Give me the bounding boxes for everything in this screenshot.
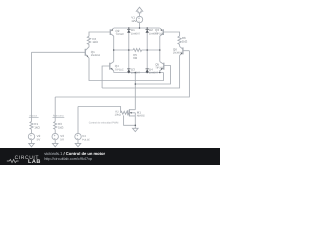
junction dots — [113, 27, 161, 126]
transistor Q5 bottom-right npn mirrored — [163, 63, 165, 70]
svg-text:http://circuitlab.com/c9k47xp: http://circuitlab.com/c9k47xp — [44, 157, 92, 161]
transistor Q4 bottom-left npn — [109, 63, 111, 70]
arrow Q1 emitter — [86, 55, 88, 57]
resistor R6 — [178, 36, 181, 44]
ground gnd4 — [133, 128, 139, 131]
wire R1 to V2 — [31, 130, 33, 134]
wire Q6 emitter drop H3 — [102, 55, 180, 88]
arrow Q2 emitter pnp — [111, 29, 113, 31]
svg-text:NMOS: NMOS — [137, 114, 145, 117]
wire bridge left vertical — [113, 36, 115, 62]
diode D1 wire — [128, 28, 130, 50]
footer bar — [0, 148, 220, 165]
arrow Q5 emitter — [161, 68, 163, 70]
svg-text:TIP31C: TIP31C — [115, 68, 124, 71]
wire mid rail right — [142, 49, 160, 51]
resistor R5 motor — [133, 49, 142, 52]
wire V1 to rail — [139, 23, 141, 28]
ground gnd3 — [75, 143, 81, 146]
wire Q6 base drop H4 — [55, 51, 189, 97]
transistor Q6 right driver npn mirrored — [182, 47, 184, 54]
svg-text:12V: 12V — [131, 19, 136, 23]
svg-text:victorxls.1 / Control de un mo: victorxls.1 / Control de un motor — [44, 151, 105, 156]
wire V3 to gnd — [54, 140, 56, 144]
svg-text:TIP31C: TIP31C — [155, 67, 164, 70]
svg-text:1kΩ: 1kΩ — [92, 40, 98, 44]
wire R6 to Q6 collector — [179, 44, 181, 46]
logo wave — [7, 159, 19, 162]
diode D2 wire — [146, 28, 148, 50]
wire Q3 base to R6 — [163, 32, 179, 36]
mosfet M1 channel bar — [128, 109, 130, 116]
resistor R4 — [87, 36, 90, 44]
wire branch2 vertical — [54, 97, 56, 122]
wire bottom rail — [114, 72, 164, 74]
transistor Q2 top-left pnp — [109, 29, 111, 35]
wire bridge right vertical — [159, 36, 161, 62]
svg-text:1kΩ: 1kΩ — [34, 125, 40, 129]
diode D2 symbol — [146, 28, 149, 31]
voltage source V1 — [136, 16, 142, 22]
diode D1 symbol — [127, 28, 130, 31]
resistor R2 — [121, 111, 130, 114]
wire drain vertical — [134, 73, 136, 110]
svg-text:10kΩ: 10kΩ — [115, 113, 121, 116]
ground gnd2 — [52, 143, 58, 146]
diode D3 wire — [128, 50, 130, 73]
net label Avance underline — [29, 116, 39, 118]
svg-text:1kΩ: 1kΩ — [182, 39, 188, 43]
wire bottom rail drop H1 — [89, 58, 164, 81]
wire Q5 base to H2 — [135, 66, 170, 85]
net label Retroceso underline — [53, 116, 65, 118]
wire V2 to gnd — [31, 140, 33, 144]
svg-text:2N3904: 2N3904 — [91, 54, 101, 57]
svg-text:1N4007: 1N4007 — [131, 32, 141, 35]
svg-text:LAB: LAB — [28, 159, 41, 165]
resistor R1 — [30, 122, 33, 130]
voltage source V2 — [28, 133, 34, 139]
wire top rail — [114, 27, 160, 29]
arrow M1 body — [130, 112, 132, 114]
wire mid rail left — [114, 49, 133, 51]
arrow Q6 emitter — [181, 53, 183, 55]
svg-text:PULSE: PULSE — [82, 138, 90, 141]
mosfet M1 gate bar — [127, 110, 129, 115]
svg-text:1N4007: 1N4007 — [131, 72, 141, 75]
diode D4 symbol — [146, 68, 149, 71]
wire M1 source body loop — [124, 115, 136, 125]
wire Q6 base — [183, 50, 190, 52]
voltage source V3 — [52, 133, 58, 139]
wire R3 to V3 — [54, 130, 56, 134]
wire M1 source down — [134, 116, 136, 128]
wire gate feed — [78, 107, 121, 113]
svg-text:Avance: Avance — [29, 115, 38, 118]
svg-text:2N3904: 2N3904 — [173, 51, 183, 54]
diode D3 symbol — [127, 68, 130, 71]
svg-text:1kΩ: 1kΩ — [58, 125, 64, 129]
arrow Q4 emitter — [111, 68, 113, 70]
arrow Q3 emitter pnp — [160, 29, 162, 31]
vcc arrow — [136, 7, 142, 13]
svg-text:1N4007: 1N4007 — [149, 72, 159, 75]
svg-text:Control de velocidad PWM: Control de velocidad PWM — [89, 122, 119, 125]
transistor Q1 left driver npn — [84, 49, 86, 56]
svg-text:Retroceso: Retroceso — [53, 115, 65, 118]
wire R2 to gate — [126, 112, 129, 114]
transistor Q3 top-right pnp — [162, 29, 164, 35]
resistor R3 — [54, 122, 57, 130]
wire R4 top to Q2 base — [89, 32, 110, 36]
wire Q1 base long — [32, 51, 86, 53]
wire vcc stem — [139, 13, 141, 17]
svg-text:5V: 5V — [37, 137, 41, 141]
wire branch1 vertical — [31, 52, 33, 121]
svg-text:TIP32C: TIP32C — [115, 33, 124, 36]
diode D4 wire — [146, 50, 148, 73]
svg-text:5V: 5V — [60, 137, 64, 141]
svg-text:TIP32C: TIP32C — [155, 32, 164, 35]
ground gnd1 — [29, 143, 35, 146]
mosfet M1 stubs — [129, 110, 135, 116]
wire V4 to gnd — [77, 140, 79, 144]
voltage source V4 — [75, 133, 81, 139]
wire branch3 vertical — [77, 107, 79, 134]
wire Q4 base — [102, 66, 110, 88]
